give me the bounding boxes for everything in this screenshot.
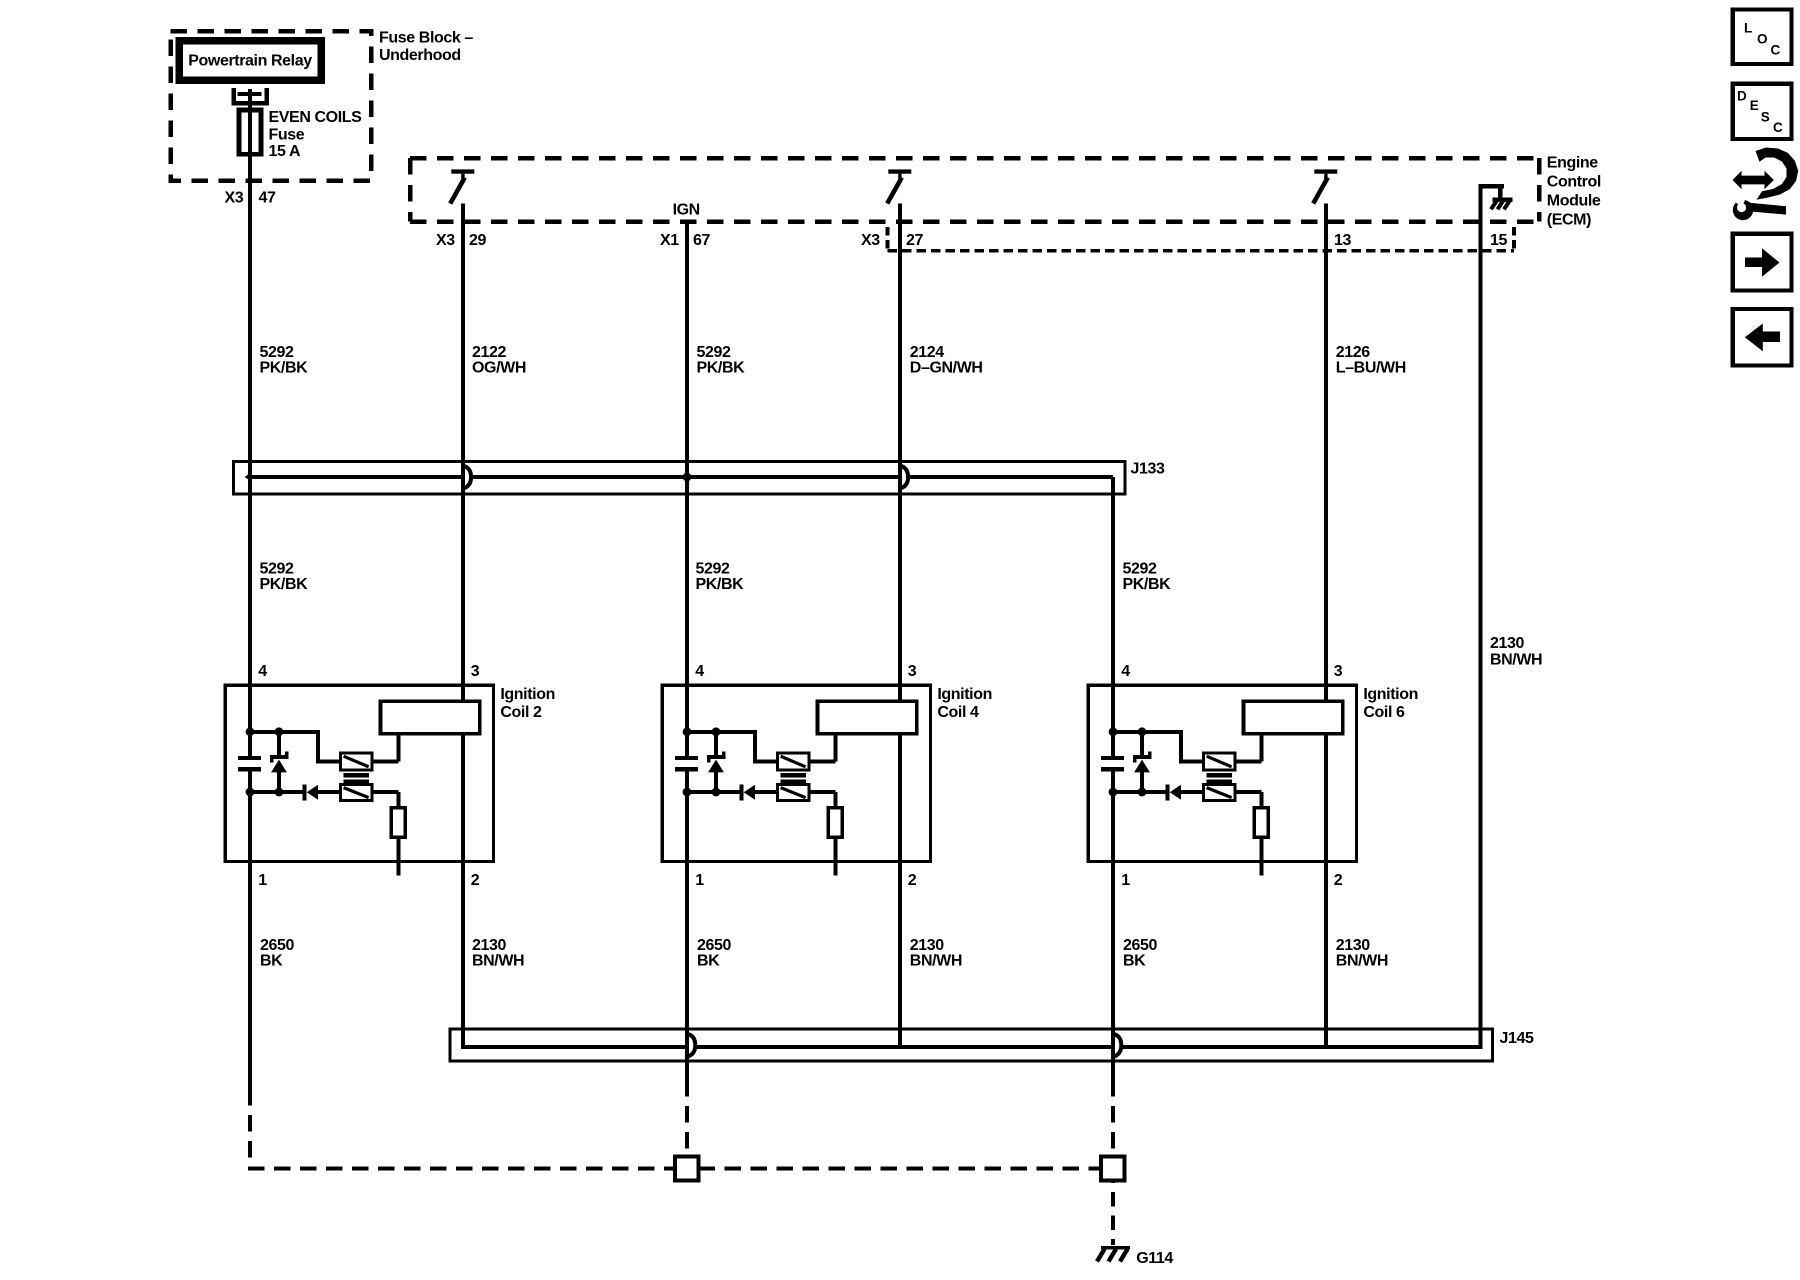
coil 4 primary winding bbox=[777, 753, 808, 770]
coil 6 pin 3 bbox=[1334, 663, 1343, 680]
svg-text:L–BU/WH: L–BU/WH bbox=[1336, 360, 1406, 377]
coil 2 trigger winding bbox=[340, 785, 371, 801]
coil 4 secondary winding bbox=[818, 701, 917, 734]
svg-text:13: 13 bbox=[1334, 232, 1351, 249]
coil 4 capacitor bbox=[675, 756, 698, 772]
wire 2130 BN/WH : ECM 15 to J145 bbox=[1481, 184, 1543, 1049]
svg-text:4: 4 bbox=[1121, 663, 1130, 680]
dashed wire S1 to S2 bbox=[699, 1167, 1102, 1171]
ground G114 bbox=[1097, 1246, 1173, 1267]
icon forward arrow bbox=[1733, 234, 1792, 291]
wire 2650 BK coil4 pin1 dashed drop bbox=[685, 1097, 689, 1157]
wire 2130 BN/WH : coil 4 pin 2 to J145 bbox=[900, 734, 962, 1047]
wire 2130 BN/WH : coil 2 pin 2 to J145 bbox=[463, 734, 524, 1049]
svg-text:Fuse: Fuse bbox=[269, 127, 305, 144]
svg-text:BN/WH: BN/WH bbox=[910, 953, 962, 970]
svg-text:J145: J145 bbox=[1500, 1030, 1534, 1047]
coil 4 pin 4 bbox=[695, 663, 704, 680]
coil 6 label bbox=[1363, 686, 1418, 721]
wire 2650 BK coil6 pin1 dashed drop bbox=[1111, 1097, 1115, 1157]
coil 2 resistor bbox=[391, 808, 405, 838]
splice S1 bbox=[675, 1157, 699, 1181]
svg-text:2: 2 bbox=[908, 872, 917, 889]
coil 2 pin 4 bbox=[258, 663, 267, 680]
icon back arrow bbox=[1733, 309, 1792, 365]
coil 2 label bbox=[500, 686, 555, 721]
coil 4 pin 1 bbox=[695, 872, 704, 889]
svg-text:67: 67 bbox=[693, 232, 710, 249]
svg-text:2126: 2126 bbox=[1336, 344, 1370, 361]
svg-text:Underhood: Underhood bbox=[379, 47, 461, 64]
svg-text:Ignition: Ignition bbox=[500, 686, 555, 703]
pin X1 67 bbox=[660, 232, 710, 249]
pin X3 47 bbox=[225, 189, 276, 206]
svg-text:2650: 2650 bbox=[697, 937, 731, 954]
wire 5292 PK/BK : J133 to coil 6 pin 4 bbox=[1113, 477, 1171, 756]
svg-text:O: O bbox=[1757, 32, 1767, 47]
svg-text:BN/WH: BN/WH bbox=[1490, 652, 1542, 669]
svg-text:3: 3 bbox=[471, 663, 480, 680]
svg-text:Module: Module bbox=[1547, 193, 1601, 210]
coil 6 trigger winding bbox=[1203, 785, 1234, 801]
svg-text:4: 4 bbox=[695, 663, 704, 680]
coil 4 zener diode bbox=[707, 732, 726, 792]
splice pack J145 bbox=[450, 1029, 1534, 1061]
svg-text:4: 4 bbox=[258, 663, 267, 680]
coil 4 resistor bbox=[828, 808, 842, 838]
net IGN bbox=[673, 202, 700, 219]
icon service tools logo bbox=[1726, 148, 1798, 221]
wire 2650 BK coil2 pin1 dashed run to splice S1 bbox=[248, 1106, 675, 1169]
wire 2650 BK : coil 6 pin 1 label bbox=[1123, 937, 1157, 970]
coil 4 pin 2 bbox=[908, 872, 917, 889]
svg-text:2124: 2124 bbox=[910, 344, 944, 361]
svg-text:5292: 5292 bbox=[260, 344, 294, 361]
svg-text:PK/BK: PK/BK bbox=[696, 576, 745, 593]
svg-text:BK: BK bbox=[1123, 953, 1146, 970]
svg-text:IGN: IGN bbox=[673, 202, 700, 219]
coil 2 pin 2 bbox=[471, 872, 480, 889]
fuse block underhood (dashed box) bbox=[171, 31, 372, 181]
svg-text:27: 27 bbox=[906, 232, 923, 249]
svg-text:15: 15 bbox=[1490, 232, 1507, 249]
coil 6 core bbox=[1207, 773, 1233, 784]
svg-text:(ECM): (ECM) bbox=[1547, 212, 1591, 229]
coil 2 zener diode bbox=[270, 732, 289, 792]
svg-text:X1: X1 bbox=[660, 232, 679, 249]
svg-text:Ignition: Ignition bbox=[937, 686, 992, 703]
svg-text:2122: 2122 bbox=[472, 344, 506, 361]
coil 2 core bbox=[344, 773, 370, 784]
svg-text:Coil 6: Coil 6 bbox=[1363, 704, 1405, 721]
svg-text:X3: X3 bbox=[436, 232, 455, 249]
svg-text:2650: 2650 bbox=[1123, 937, 1157, 954]
coil 6 capacitor bbox=[1101, 756, 1124, 772]
svg-text:D–GN/WH: D–GN/WH bbox=[910, 360, 983, 377]
wire 2650 BK : coil 4 pin 1 label bbox=[697, 937, 731, 970]
coil 4 pin 3 bbox=[908, 663, 917, 680]
coil 2 pin 1 bbox=[258, 872, 267, 889]
coil 2 diode bbox=[303, 785, 319, 801]
coil 6 pin 4 bbox=[1121, 663, 1130, 680]
svg-text:D: D bbox=[1737, 88, 1747, 103]
ignition coil 2 bbox=[225, 685, 493, 861]
powertrain relay bbox=[179, 41, 321, 81]
svg-text:2130: 2130 bbox=[472, 937, 506, 954]
svg-text:Coil 4: Coil 4 bbox=[937, 704, 979, 721]
svg-text:OG/WH: OG/WH bbox=[472, 360, 526, 377]
icon DESC bbox=[1733, 84, 1792, 139]
svg-text:PK/BK: PK/BK bbox=[260, 576, 309, 593]
fuse block label bbox=[379, 30, 473, 64]
svg-text:BK: BK bbox=[260, 953, 283, 970]
svg-text:2130: 2130 bbox=[1490, 635, 1524, 652]
coil 6 primary winding bbox=[1203, 753, 1234, 770]
pin 13 bbox=[1334, 232, 1351, 249]
svg-text:Fuse Block –: Fuse Block – bbox=[379, 30, 473, 47]
icon LOC bbox=[1733, 9, 1792, 64]
coil 4 trigger winding bbox=[777, 785, 808, 801]
ECM dashed box bbox=[410, 158, 1539, 222]
wire 2126 L-BU/WH : ECM 13 to coil 6 pin 3 bbox=[1326, 204, 1406, 702]
coil 6 internal wiring bbox=[1109, 727, 1262, 1096]
coil 6 pin 1 bbox=[1121, 872, 1130, 889]
svg-text:PK/BK: PK/BK bbox=[697, 360, 746, 377]
pin X3 27 bbox=[861, 232, 923, 249]
svg-text:C: C bbox=[1773, 120, 1783, 135]
svg-text:1: 1 bbox=[695, 872, 704, 889]
splice pack J133 bbox=[234, 461, 1165, 495]
coil 6 pin 2 bbox=[1334, 872, 1343, 889]
svg-text:1: 1 bbox=[258, 872, 267, 889]
svg-text:47: 47 bbox=[259, 189, 276, 206]
svg-text:2650: 2650 bbox=[260, 937, 294, 954]
coil 2 primary winding bbox=[340, 753, 371, 770]
svg-text:Engine: Engine bbox=[1547, 155, 1598, 172]
svg-text:2130: 2130 bbox=[1336, 937, 1370, 954]
svg-text:PK/BK: PK/BK bbox=[260, 360, 309, 377]
svg-text:5292: 5292 bbox=[697, 344, 731, 361]
svg-text:Ignition: Ignition bbox=[1363, 686, 1418, 703]
fuse F: EVEN COILS 15 A bbox=[231, 88, 362, 160]
wire 5292 PK/BK : J133 to coil 2 pin 4 (below bus) bbox=[260, 561, 309, 593]
ECM driver for pin 27 bbox=[887, 169, 911, 203]
svg-text:3: 3 bbox=[908, 663, 917, 680]
svg-text:X3: X3 bbox=[225, 189, 244, 206]
svg-text:L: L bbox=[1744, 21, 1752, 36]
wire 2124 D-GN/WH : ECM 27 to coil 4 pin 3 bbox=[900, 204, 983, 702]
wire 5292 PK/BK : J133 to coil 4 pin 4 bbox=[696, 561, 745, 593]
svg-text:S: S bbox=[1761, 110, 1770, 125]
svg-text:Control: Control bbox=[1547, 174, 1601, 191]
ECM driver for pin 13 bbox=[1313, 169, 1337, 203]
coil 2 capacitor bbox=[238, 756, 261, 772]
splice S2 bbox=[1101, 1157, 1125, 1181]
svg-text:J133: J133 bbox=[1131, 461, 1165, 478]
coil 2 internal wiring bbox=[246, 727, 399, 1105]
svg-text:BK: BK bbox=[697, 953, 720, 970]
svg-text:X3: X3 bbox=[861, 232, 880, 249]
ECM internal ground at pin 15 bbox=[1479, 184, 1513, 209]
pin 15 bbox=[1490, 232, 1507, 249]
coil 4 diode bbox=[740, 785, 756, 801]
coil 2 pin 3 bbox=[471, 663, 480, 680]
svg-text:29: 29 bbox=[469, 232, 486, 249]
svg-text:E: E bbox=[1750, 98, 1759, 113]
svg-text:PK/BK: PK/BK bbox=[1123, 576, 1172, 593]
coil 4 label bbox=[937, 686, 992, 721]
wire 2650 BK : coil 2 pin 1 label bbox=[260, 937, 294, 970]
svg-text:3: 3 bbox=[1334, 663, 1343, 680]
coil 6 secondary winding bbox=[1244, 701, 1343, 734]
ECM driver for pin 29 bbox=[450, 169, 474, 203]
ignition coil 4 bbox=[662, 685, 930, 861]
svg-text:1: 1 bbox=[1121, 872, 1130, 889]
coil 6 diode bbox=[1166, 785, 1182, 801]
coil 4 core bbox=[781, 773, 807, 784]
wire 2122 OG/WH : ECM 29 to coil 2 pin 3 bbox=[463, 204, 526, 702]
wire 2130 BN/WH : coil 6 pin 2 to J145 bbox=[1326, 734, 1388, 1047]
ECM connector notch (dotted) bbox=[888, 227, 1514, 252]
svg-text:BN/WH: BN/WH bbox=[1336, 953, 1388, 970]
svg-text:2: 2 bbox=[1334, 872, 1343, 889]
svg-text:2: 2 bbox=[471, 872, 480, 889]
pin X3 29 bbox=[436, 232, 486, 249]
svg-text:2130: 2130 bbox=[910, 937, 944, 954]
svg-text:15 A: 15 A bbox=[269, 143, 301, 160]
wire 5292 PK/BK : fuse to J133 (and into coil 2 cap) bbox=[250, 89, 308, 756]
svg-text:C: C bbox=[1771, 43, 1781, 58]
svg-text:Powertrain Relay: Powertrain Relay bbox=[188, 52, 312, 69]
dashed wire S2 to ground bbox=[1111, 1181, 1115, 1246]
ECM label bbox=[1547, 155, 1601, 229]
coil 2 secondary winding bbox=[381, 701, 480, 734]
svg-text:EVEN COILS: EVEN COILS bbox=[269, 109, 363, 126]
coil 6 zener diode bbox=[1133, 732, 1152, 792]
coil 4 internal wiring bbox=[683, 727, 836, 1096]
svg-text:Coil 2: Coil 2 bbox=[500, 704, 542, 721]
svg-text:G114: G114 bbox=[1136, 1250, 1173, 1267]
coil 6 resistor bbox=[1254, 808, 1268, 838]
wire 5292 PK/BK : ECM 67 (IGN) to J133 bbox=[687, 222, 745, 756]
ignition coil 6 bbox=[1088, 685, 1356, 861]
svg-text:BN/WH: BN/WH bbox=[472, 953, 524, 970]
